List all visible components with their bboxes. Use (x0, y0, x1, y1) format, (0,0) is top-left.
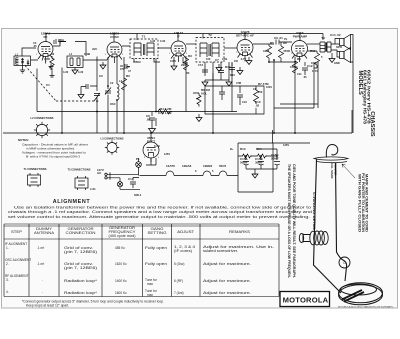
svg-text:R10: R10 (225, 65, 231, 69)
svg-text:C7B: C7B (222, 57, 227, 61)
capacitor C17 (130, 178, 139, 189)
pointer hook (326, 145, 337, 158)
tube U4 12AV6 DET-AVC-AF (237, 40, 253, 62)
spring coil (299, 231, 328, 245)
svg-text:(400 cycle mod): (400 cycle mod) (109, 234, 136, 238)
svg-text:.05: .05 (146, 118, 151, 122)
svg-text:L3 CONNECTIONS: L3 CONNECTIONS (101, 137, 124, 141)
wire: T1 primary top drop (136, 34, 138, 41)
svg-text:ADJUST: ADJUST (177, 230, 194, 234)
svg-text:MOTOROLA 66X1 66X2 CHASSIS HS-: MOTOROLA 66X1 66X2 CHASSIS HS-478 SCHEMA… (338, 306, 394, 309)
svg-text:THE SPEAKERS MUST BE IN PHASE: THE SPEAKERS MUST BE IN PHASE OR A LOSS … (287, 164, 291, 279)
ground (149, 126, 156, 133)
svg-text:REMARKS: REMARKS (229, 230, 250, 234)
svg-text:R9: R9 (297, 57, 301, 61)
speaker SP2 (340, 48, 351, 63)
wire: verticals to buses (37, 56, 352, 133)
wire: T2 primary top drop (202, 34, 204, 39)
svg-text:OSC ALIGNMENT: OSC ALIGNMENT (5, 258, 31, 262)
T2 connections diagram (75, 176, 88, 190)
svg-text:IF: IF (177, 35, 180, 39)
svg-text:-0.7V: -0.7V (240, 57, 246, 61)
capacitor C12 (302, 62, 308, 75)
cord left (314, 160, 342, 294)
svg-text:RECT: RECT (147, 140, 155, 144)
wire: plate drop U4 (244, 34, 246, 40)
wire: 156 to filter (238, 155, 277, 157)
svg-text:C4A: C4A (58, 38, 65, 42)
svg-text:VOL: VOL (201, 92, 207, 96)
wire: U3 cathode (171, 57, 188, 70)
svg-text:250: 250 (258, 90, 263, 94)
svg-text:B+: B+ (230, 147, 234, 151)
svg-text:ALIGNMENT: ALIGNMENT (53, 199, 91, 205)
output transformer T3 (320, 42, 331, 52)
svg-text:C4B: C4B (84, 52, 91, 56)
socket L3 (105, 140, 119, 154)
svg-text:C17: C17 (128, 177, 134, 181)
coil box L4 (67, 56, 83, 68)
wire: grid coupling U1 to L1 (22, 48, 38, 60)
svg-text:MODELS: MODELS (357, 71, 363, 96)
power plug (107, 172, 139, 181)
svg-text:.05: .05 (33, 44, 37, 48)
svg-text:4.: 4. (6, 290, 9, 294)
ground L1 (20, 66, 25, 74)
resistor R1 (50, 56, 54, 74)
svg-text:B- with a VTVM. No signal inp: B- with a VTVM. No signal input/20%-3 (26, 155, 80, 159)
wire: U3 plate to T2 (186, 43, 196, 45)
dial stringing figure (299, 145, 382, 305)
IF transformer T2 (dashed can) (196, 38, 224, 63)
svg-text:22M: 22M (181, 63, 187, 67)
svg-text:3-30: 3-30 (78, 70, 84, 74)
svg-text:(pin 7, 12BE6): (pin 7, 12BE6) (64, 250, 97, 254)
resistor R11 (307, 51, 320, 68)
svg-text:455KC: 455KC (133, 60, 141, 64)
svg-text:GND: GND (334, 61, 340, 65)
tube pin stubs U2 (107, 56, 122, 60)
svg-text:C7A: C7A (198, 63, 203, 67)
svg-text:C8: C8 (253, 87, 257, 91)
socket L2 (34, 122, 50, 138)
svg-text:100: 100 (206, 57, 211, 61)
svg-text:100V: 100V (266, 85, 272, 89)
svg-text:30MF: 30MF (255, 161, 263, 165)
svg-text:CHASSIS: CHASSIS (369, 111, 375, 136)
pilot lamp (136, 162, 142, 168)
table header text (11, 226, 250, 238)
svg-text:SETTING: SETTING (148, 231, 168, 235)
svg-text:R6: R6 (283, 41, 287, 45)
svg-text:455 Kc: 455 Kc (115, 246, 125, 250)
ground R1 (50, 74, 55, 78)
wire: U5 plate to T3 (307, 43, 320, 45)
svg-text:OSC: OSC (110, 102, 116, 106)
svg-text:Radiation loop*: Radiation loop* (64, 291, 98, 295)
wire: T3 secondary to speakers (331, 39, 340, 58)
svg-text:C14 .02: C14 .02 (330, 33, 341, 37)
wire: top B+ rail (46, 33, 323, 35)
oscillator cap C2 (105, 57, 111, 133)
svg-text:-: - (42, 290, 43, 294)
svg-text:C2: C2 (110, 81, 114, 85)
tube U1 12BA6 RF (38, 42, 53, 64)
svg-text:T1: T1 (142, 35, 146, 39)
bus: B- main (3, 132, 352, 134)
svg-text:6 (RF): 6 (RF) (174, 279, 183, 283)
svg-text:3-30: 3-30 (150, 39, 156, 43)
svg-text:T2: T2 (208, 33, 212, 37)
table body text (5, 242, 274, 297)
svg-text:max: max (147, 293, 153, 297)
IF transformer T1 (dashed can) (130, 39, 158, 59)
svg-text:PL: PL (136, 157, 140, 161)
capacitor C15C (241, 149, 280, 169)
svg-text:117V: 117V (312, 69, 318, 73)
svg-text:12AT6: 12AT6 (166, 164, 175, 168)
svg-text:100V: 100V (170, 59, 176, 63)
svg-text:12BA6: 12BA6 (182, 164, 192, 168)
wire: U1 plate to coil box 2 (53, 42, 86, 57)
svg-text:C10: C10 (242, 100, 247, 104)
notes block (18, 138, 89, 159)
svg-text:CIES AND POOR TONE QUALITY WIL: CIES AND POOR TONE QUALITY WILL RESULT. … (292, 164, 296, 278)
svg-text:C1: C1 (46, 83, 50, 87)
resistor R6 (269, 42, 295, 62)
svg-text:C11: C11 (297, 72, 302, 76)
wire: U2 grid from box2 (83, 59, 107, 61)
ground (246, 57, 252, 65)
volume control R8 (193, 93, 201, 107)
gang dashed link (25, 66, 100, 102)
capacitor C3 (78, 84, 97, 99)
svg-text:2.: 2. (6, 262, 9, 266)
pointer arrow note (342, 164, 355, 178)
svg-text:R13: R13 (240, 147, 246, 151)
pointer bar (314, 157, 348, 163)
svg-text:Use an isolation transformer b: Use an isolation transformer between the… (14, 205, 311, 209)
footnote (22, 300, 164, 308)
svg-text:STEP: STEP (11, 230, 22, 234)
resistor R4 (156, 109, 172, 114)
junction dots (45, 33, 301, 157)
extra value labels (15, 37, 340, 191)
wire: T2 sec to U4 grid (224, 47, 237, 49)
svg-text:10M: 10M (263, 49, 269, 53)
svg-text:5 (Osc): 5 (Osc) (174, 262, 184, 266)
heater 50C5 (219, 171, 227, 176)
T1 connections diagram (28, 173, 41, 187)
svg-text:R3: R3 (186, 71, 190, 75)
heater 12AT6 (166, 171, 174, 176)
tube pin stubs U4 (238, 54, 253, 58)
svg-text:Adjust for maximum.: Adjust for maximum. (203, 262, 251, 266)
svg-text:50C5: 50C5 (219, 164, 227, 168)
coil box L1 (14, 56, 31, 66)
svg-text:C13: C13 (311, 61, 317, 65)
wire: T1 sec to U3 grid (154, 48, 171, 62)
svg-text:RF: RF (44, 35, 48, 39)
svg-text:C7A 1.2M: C7A 1.2M (158, 111, 172, 115)
capacitor C15A (243, 156, 249, 169)
capacitor C5 (120, 64, 130, 69)
svg-text:R1: R1 (51, 52, 55, 56)
node: right vertical title block (357, 70, 375, 137)
capacitor C8 (229, 63, 235, 73)
oscillator coil L3 (117, 57, 119, 133)
resistor R9 (293, 61, 298, 73)
svg-text:150M: 150M (290, 65, 298, 69)
svg-text:T1 CONNECTIONS: T1 CONNECTIONS (24, 167, 47, 171)
svg-text:1600 Kc: 1600 Kc (115, 291, 127, 295)
pin number labels (36, 52, 307, 159)
capacitor C9 coupling U4-U5 (253, 40, 292, 45)
capacitor C6 (149, 112, 155, 127)
ground (100, 62, 106, 69)
svg-text:0V: 0V (284, 37, 287, 41)
svg-text:Adjust for maximum.: Adjust for maximum. (203, 291, 251, 295)
svg-text:SPK: SPK (336, 45, 343, 49)
svg-text:(pin 7, 12BE6): (pin 7, 12BE6) (64, 266, 97, 270)
svg-text:CAL. MARK: CAL. MARK (330, 163, 334, 179)
svg-text:DET-AVC-AF: DET-AVC-AF (236, 34, 254, 38)
ground (49, 64, 54, 70)
svg-text:470K: 470K (283, 49, 291, 53)
resistor R14 (256, 154, 267, 158)
svg-text:3.: 3. (6, 278, 9, 282)
svg-text:C9 .01: C9 .01 (274, 36, 283, 40)
svg-text:chassis through a .1 mf capaci: chassis through a .1 mf capacitor. Conne… (8, 210, 312, 214)
svg-text:T3: T3 (321, 36, 325, 40)
resistor R13 (241, 154, 252, 158)
volume box internals (219, 86, 243, 105)
svg-text:MARK AND CEMENT TO CORD: MARK AND CEMENT TO CORD (365, 174, 369, 233)
speaker SP1 (340, 35, 351, 50)
svg-text:C2: C2 (99, 74, 103, 78)
switch SW-1 (117, 182, 122, 187)
svg-text:1.: 1. (6, 246, 9, 250)
svg-text:12BE6: 12BE6 (203, 164, 213, 168)
svg-text:.05: .05 (303, 75, 307, 79)
svg-text:3-30: 3-30 (160, 39, 166, 43)
svg-text:LUG: LUG (90, 187, 95, 191)
svg-text:R11: R11 (310, 49, 316, 53)
alignment table rules (4, 224, 279, 297)
svg-text:MOTOROLA: MOTOROLA (283, 296, 329, 305)
svg-text:PWR AMP: PWR AMP (293, 35, 307, 39)
svg-text:470K: 470K (44, 57, 50, 61)
svg-text:R10: R10 (230, 73, 235, 77)
capacitor C15B (258, 156, 264, 169)
node: pointer note (vertical) (330, 163, 369, 233)
schematic tiny labels (24, 30, 343, 197)
svg-text:Fully open: Fully open (145, 246, 167, 250)
svg-text:WITH GANG PULLY CLOSED: WITH GANG PULLY CLOSED (358, 174, 362, 233)
tube pin stubs U1 (38, 55, 53, 61)
tube U2 12BE6 CONV (107, 42, 122, 63)
cord right (336, 163, 347, 281)
feedback box wires (205, 86, 264, 114)
ground filter (252, 169, 258, 178)
tube U3 12BA6 IF (171, 41, 186, 62)
diode load network under T2 (202, 62, 232, 86)
resistor R2 (122, 78, 127, 90)
svg-text:CONV: CONV (110, 35, 119, 39)
svg-text:.1 mf: .1 mf (37, 246, 44, 250)
svg-text:C8: C8 (234, 59, 238, 63)
svg-text:C5: C5 (120, 67, 124, 71)
svg-text:NOTES:: NOTES: (18, 138, 29, 142)
ground (216, 64, 222, 72)
svg-text:R5: R5 (270, 41, 274, 45)
intro paragraph (8, 205, 312, 219)
wire: plate drop U5 (299, 34, 301, 41)
tube pin stubs U3 (171, 55, 186, 59)
svg-text:47M: 47M (236, 81, 241, 85)
heater 12BE6 (203, 171, 211, 176)
svg-text:(IF cores): (IF cores) (174, 249, 192, 253)
variable capacitor C1 (94, 86, 100, 103)
svg-text:PUT POINTER TO CALIBRATION: PUT POINTER TO CALIBRATION (361, 173, 365, 233)
wire: plate drop U2 (113, 34, 115, 43)
svg-text:.1 mf: .1 mf (37, 262, 44, 266)
svg-text:1400 Kc: 1400 Kc (115, 279, 127, 283)
svg-text:117V: 117V (154, 144, 160, 148)
ground (72, 68, 78, 75)
svg-text:C5: C5 (126, 65, 130, 69)
svg-text:Radiation loop*: Radiation loop* (64, 279, 98, 283)
svg-text:7 (Ant): 7 (Ant) (174, 291, 184, 295)
svg-text:.02: .02 (255, 104, 260, 108)
ground (237, 67, 243, 75)
svg-text:Adjust for maximum.: Adjust for maximum. (203, 279, 251, 283)
resistor R5 (267, 44, 272, 62)
svg-text:AVC: AVC (92, 47, 97, 51)
svg-text:1620 Kc: 1620 Kc (115, 262, 127, 266)
svg-text:Keep loops at least 12" apart.: Keep loops at least 12" apart. (26, 304, 69, 308)
svg-text:120V: 120V (283, 143, 289, 147)
svg-text:L2 CONNECTIONS: L2 CONNECTIONS (31, 116, 54, 120)
ground (196, 114, 202, 122)
svg-text:-: - (42, 278, 43, 282)
svg-text:T2 CONNECTIONS: T2 CONNECTIONS (68, 168, 91, 172)
resistor R3 (184, 58, 189, 70)
bus: AVC line (37, 111, 237, 113)
svg-text:sulated screwdriver.: sulated screwdriver. (203, 249, 238, 253)
wire: rect to filter (140, 133, 157, 176)
tube U5 50C5 PWR AMP (292, 41, 308, 63)
filter network box (238, 130, 310, 192)
capacitor C4A (54, 39, 66, 44)
wire: plate drop U1 (45, 34, 47, 42)
Motorola logo (280, 292, 330, 307)
svg-text:50MF: 50MF (240, 161, 248, 165)
wire: speaker return lines (274, 35, 353, 134)
tube U6 35W4 RECT (143, 142, 159, 162)
ground (329, 53, 335, 63)
svg-text:C7: C7 (215, 58, 219, 62)
svg-text:125V: 125V (164, 152, 170, 156)
wire: plate drop U3 (177, 34, 179, 42)
svg-text:Fully open: Fully open (145, 262, 167, 266)
svg-text:ANTENNA: ANTENNA (34, 231, 55, 235)
svg-text:R3: R3 (188, 54, 192, 58)
svg-text:max: max (147, 282, 153, 286)
svg-text:R2: R2 (126, 74, 130, 78)
node: speaker phase note (vertical) (287, 164, 296, 279)
resistor R7 (254, 88, 259, 104)
filament string (148, 175, 238, 177)
tube pin stubs U5 (292, 55, 307, 59)
svg-text:R14: R14 (256, 147, 262, 151)
pulley C (339, 257, 350, 268)
wire: T3 primary drop (322, 34, 324, 41)
svg-text:CONNECTION: CONNECTION (66, 231, 97, 235)
svg-text:SW-1: SW-1 (134, 193, 142, 197)
wire: U2 plate to T1 (122, 46, 134, 62)
svg-text:3-30: 3-30 (63, 70, 69, 74)
svg-text:set volume control to maximum.: set volume control to maximum. Attenuate… (8, 215, 310, 219)
svg-text:20MF: 20MF (271, 157, 279, 161)
drive drum (339, 283, 383, 305)
